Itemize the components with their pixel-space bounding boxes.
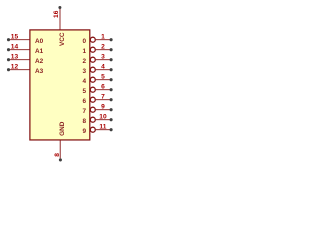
- svg-text:5: 5: [101, 73, 105, 80]
- svg-text:A1: A1: [35, 48, 44, 55]
- svg-text:15: 15: [11, 33, 19, 40]
- svg-text:8: 8: [82, 118, 86, 125]
- svg-text:GND: GND: [59, 121, 66, 136]
- svg-text:8: 8: [54, 153, 61, 157]
- svg-text:6: 6: [101, 83, 105, 90]
- svg-text:4: 4: [101, 63, 105, 70]
- svg-text:A3: A3: [35, 68, 44, 75]
- svg-text:12: 12: [11, 63, 19, 70]
- svg-text:A0: A0: [35, 38, 44, 45]
- svg-text:9: 9: [101, 103, 105, 110]
- svg-text:A2: A2: [35, 58, 44, 65]
- svg-text:0: 0: [82, 38, 86, 45]
- svg-text:11: 11: [99, 123, 106, 130]
- svg-text:VCC: VCC: [59, 32, 66, 46]
- pin 4 output 3 (inverted): [90, 63, 112, 72]
- pin 15 input A0: [7, 33, 30, 41]
- pin 5 output 4 (inverted): [90, 73, 112, 82]
- svg-text:6: 6: [82, 98, 86, 105]
- svg-text:16: 16: [53, 10, 60, 18]
- pin 6 output 5 (inverted): [90, 83, 112, 92]
- svg-text:13: 13: [11, 53, 19, 60]
- pin 14 input A1: [7, 43, 30, 51]
- pin 1 output 0 (inverted): [90, 33, 112, 42]
- IC body U1 (74LS42 BCD-to-decimal decoder): [30, 30, 90, 140]
- pin 11 output 9 (inverted): [90, 123, 112, 132]
- pin 13 input A2: [7, 53, 30, 61]
- svg-text:1: 1: [101, 33, 105, 40]
- svg-text:9: 9: [82, 128, 86, 135]
- pin 16 VCC (top): [53, 6, 61, 30]
- svg-text:7: 7: [101, 93, 105, 100]
- svg-text:2: 2: [82, 58, 86, 65]
- svg-text:7: 7: [82, 108, 86, 115]
- svg-text:3: 3: [101, 53, 105, 60]
- pin 9 output 7 (inverted): [90, 103, 112, 112]
- pin 3 output 2 (inverted): [90, 53, 112, 62]
- pin 10 output 8 (inverted): [90, 113, 112, 122]
- pin 7 output 6 (inverted): [90, 93, 112, 102]
- svg-text:1: 1: [82, 48, 86, 55]
- svg-text:4: 4: [82, 78, 86, 85]
- svg-text:3: 3: [82, 68, 86, 75]
- svg-text:10: 10: [99, 113, 107, 120]
- pin 2 output 1 (inverted): [90, 43, 112, 52]
- pin 12 input A3: [7, 63, 30, 71]
- svg-text:14: 14: [11, 43, 19, 50]
- svg-text:2: 2: [101, 43, 105, 50]
- svg-text:5: 5: [82, 88, 86, 95]
- pin 8 GND (bottom): [54, 140, 62, 161]
